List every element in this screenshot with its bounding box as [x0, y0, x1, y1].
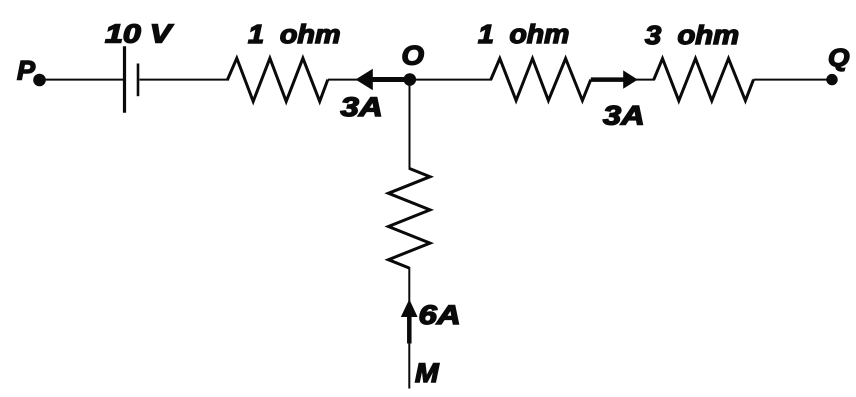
- wire P to battery: [42, 79, 123, 81]
- wire R4 to arrow 6A: [408, 267, 410, 302]
- svg-text:1 ohm: 1 ohm: [248, 19, 340, 48]
- svg-text:10 V: 10 V: [105, 20, 174, 49]
- wire arrow to R3: [636, 79, 655, 81]
- resistor R2: [491, 59, 591, 101]
- svg-text:3A: 3A: [341, 93, 383, 123]
- wire R1 to arrow: [328, 79, 358, 81]
- vertical wire O down to R4: [409, 80, 411, 170]
- svg-text:1 ohm: 1 ohm: [478, 19, 569, 49]
- current arrow 3A pointing left into node O: [356, 69, 373, 91]
- svg-text:P: P: [17, 55, 36, 85]
- current arrow 3A pointing right toward R3: [591, 77, 624, 82]
- svg-text:O: O: [402, 40, 425, 70]
- svg-text:6A: 6A: [419, 300, 461, 330]
- node P: [33, 74, 46, 87]
- svg-text:3 ohm: 3 ohm: [645, 20, 739, 49]
- wire battery to R1: [140, 79, 230, 81]
- svg-text:3A: 3A: [603, 101, 645, 131]
- battery V1 positive plate: [123, 46, 126, 113]
- wire O to R2: [410, 79, 492, 81]
- current arrow 6A pointing up: [401, 299, 418, 317]
- wire R3 to Q: [754, 79, 833, 81]
- resistor R1: [228, 58, 328, 101]
- battery V1 negative plate: [137, 64, 140, 97]
- svg-text:M: M: [415, 358, 440, 388]
- node O: [404, 73, 417, 86]
- node Q: [826, 74, 837, 85]
- resistor R3: [654, 59, 754, 101]
- resistor R4 (vertical): [388, 168, 430, 268]
- svg-text:Q: Q: [828, 44, 849, 73]
- wire arrow to M: [408, 342, 410, 389]
